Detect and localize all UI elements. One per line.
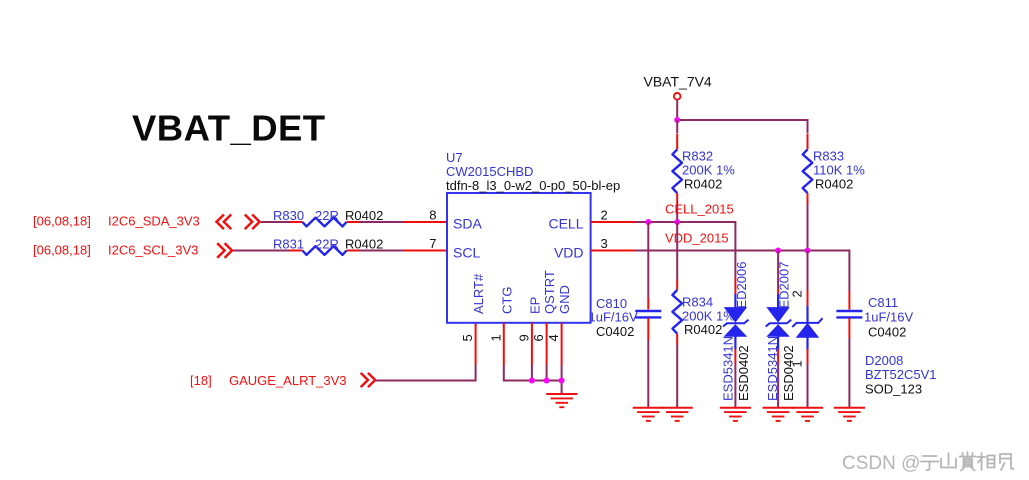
wire VBAT rail (676, 100, 678, 121)
svg-text:CTG: CTG (499, 287, 514, 314)
ground under ED2006 (720, 408, 751, 421)
svg-text:22R: 22R (315, 236, 339, 251)
resistor R832 (676, 120, 678, 133)
wire CELL net (591, 221, 635, 223)
svg-text:ESD0402: ESD0402 (736, 345, 751, 401)
ground under D2008 (792, 408, 823, 421)
svg-text:1: 1 (488, 334, 503, 341)
wire CTG pin stub (503, 323, 505, 365)
capacitor C811 (848, 291, 850, 310)
pin 9 EP (528, 297, 543, 314)
svg-text:VDD: VDD (554, 245, 584, 261)
svg-text:R831: R831 (273, 236, 304, 251)
svg-text:R834: R834 (682, 295, 713, 310)
svg-text:C0402: C0402 (596, 324, 634, 339)
svg-text:R0402: R0402 (684, 177, 722, 192)
wire SDA row (261, 221, 290, 223)
svg-text:C811: C811 (868, 295, 898, 310)
junction VBAT (674, 117, 680, 123)
port chevron in I2C6_SDA_3V3 (217, 215, 232, 230)
op-amp U7 (fuel gauge CW2015CHBD body) (447, 193, 591, 323)
wire EP pin stub (531, 323, 533, 365)
svg-text:VDD_2015: VDD_2015 (665, 230, 729, 245)
svg-text:VBAT_7V4: VBAT_7V4 (644, 74, 712, 90)
svg-text:EP: EP (528, 297, 543, 314)
ground under U7 GND pin (546, 394, 577, 407)
svg-text:2: 2 (601, 208, 608, 223)
ground under C811 (834, 408, 865, 421)
svg-text:SCL: SCL (453, 245, 480, 261)
pin 5 ALRT# (471, 273, 486, 314)
ground under C810 (633, 408, 664, 421)
port chevron out I2C6_SCL_3V3 (217, 243, 232, 258)
junction CELL/C810 (645, 219, 651, 225)
svg-text:SOD_123: SOD_123 (865, 382, 922, 397)
svg-text:200K 1%: 200K 1% (682, 163, 735, 178)
svg-text:BZT52C5V1: BZT52C5V1 (865, 367, 937, 382)
svg-text:R0402: R0402 (684, 322, 722, 337)
port chevron out I2C6_SDA_3V3 (245, 215, 260, 230)
svg-text:ED2006: ED2006 (734, 262, 749, 309)
svg-text:R830: R830 (273, 208, 304, 223)
svg-text:I2C6_SDA_3V3: I2C6_SDA_3V3 (108, 213, 200, 228)
pin 1 of D2008 (790, 360, 805, 367)
svg-text:SDA: SDA (453, 216, 482, 232)
svg-text:VBAT_DET: VBAT_DET (132, 108, 326, 149)
capacitor C810 (647, 222, 649, 298)
svg-text:5: 5 (460, 334, 475, 341)
junction at GND (559, 378, 565, 384)
wire GAUGE_ALRT to ALRT# pin (376, 365, 476, 381)
diode ED2006 (TVS) (734, 278, 736, 295)
svg-text:4: 4 (546, 334, 561, 341)
wire GND pin stub (561, 323, 563, 365)
svg-text:ED2007: ED2007 (777, 262, 792, 309)
diode D2008 (zener BZT52C5V1) (807, 251, 809, 291)
wire QSTRT pin stub (546, 323, 548, 365)
pin 4 GND (557, 285, 572, 314)
svg-text:110K 1%: 110K 1% (813, 163, 865, 178)
svg-text:CSDN @: CSDN @ (842, 453, 920, 474)
svg-text:6: 6 (531, 334, 546, 341)
svg-text:R0402: R0402 (815, 177, 853, 192)
svg-text:ESD5341N: ESD5341N (721, 336, 736, 401)
svg-text:ALRT#: ALRT# (471, 273, 486, 314)
svg-text:[06,08,18]: [06,08,18] (33, 242, 91, 257)
svg-text:CW2015CHBD: CW2015CHBD (446, 164, 533, 179)
svg-text:CELL_2015: CELL_2015 (665, 202, 734, 217)
svg-text:R832: R832 (682, 148, 713, 163)
svg-text:2: 2 (789, 290, 804, 297)
svg-text:I2C6_SCL_3V3: I2C6_SCL_3V3 (108, 242, 198, 257)
svg-text:GND: GND (557, 285, 572, 314)
wire VDD net (591, 250, 635, 252)
wire SCL row (233, 250, 290, 252)
svg-text:QSTRT: QSTRT (542, 270, 557, 314)
svg-text:1: 1 (790, 360, 805, 367)
pin 2 of D2008 (789, 290, 804, 297)
svg-text:U7: U7 (446, 150, 463, 165)
ground under ED2007 (763, 408, 794, 421)
svg-text:9: 9 (517, 334, 532, 341)
svg-text:R0402: R0402 (345, 236, 383, 251)
svg-text:GAUGE_ALRT_3V3: GAUGE_ALRT_3V3 (229, 373, 347, 388)
svg-text:ESD5341N: ESD5341N (765, 336, 780, 401)
junction at QSTRT (544, 378, 550, 384)
svg-text:tdfn-8_l3_0-w2_0-p0_50-bl-ep: tdfn-8_l3_0-w2_0-p0_50-bl-ep (446, 178, 620, 193)
pin 1 CTG (499, 287, 514, 314)
svg-text:R833: R833 (813, 148, 844, 163)
pin 6 QSTRT (542, 270, 557, 314)
junction VDD/R833-D2008 (805, 248, 811, 254)
port chevron out GAUGE_ALRT_3V3 (361, 373, 376, 387)
svg-text:ESD0402: ESD0402 (781, 345, 796, 401)
svg-text:CELL: CELL (548, 216, 583, 232)
junction at EP (529, 378, 535, 384)
svg-text:8: 8 (429, 208, 436, 223)
junction VDD/ED2007 (775, 248, 781, 254)
resistor R830 (303, 218, 347, 227)
svg-text:3: 3 (601, 236, 608, 251)
svg-text:[18]: [18] (190, 373, 212, 388)
svg-text:C0402: C0402 (868, 325, 906, 340)
resistor R834 (676, 222, 678, 279)
svg-text:[06,08,18]: [06,08,18] (33, 213, 91, 228)
diode ED2007 (TVS) (777, 251, 779, 290)
resistor R831 (303, 246, 347, 255)
svg-text:22R: 22R (315, 208, 339, 223)
svg-text:7: 7 (429, 236, 436, 251)
svg-text:D2008: D2008 (865, 353, 903, 368)
junction CELL/R834 (674, 219, 680, 225)
svg-text:1uF/16V: 1uF/16V (589, 310, 638, 325)
resistor R833 (807, 134, 809, 150)
svg-text:1uF/16V: 1uF/16V (864, 310, 913, 325)
ground under R834 (662, 408, 693, 421)
svg-text:R0402: R0402 (345, 208, 383, 223)
